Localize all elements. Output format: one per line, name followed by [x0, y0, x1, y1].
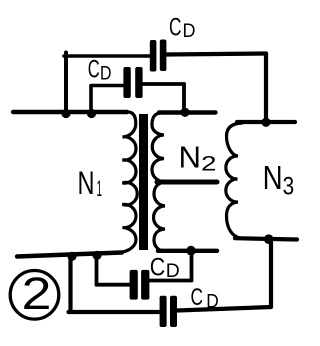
label CD inner top — [88, 55, 112, 84]
svg-text:3: 3 — [283, 173, 295, 201]
wire from outer top cap to right — [166, 54, 266, 55]
wire riser to outer top loop — [64, 53, 68, 113]
svg-text:D: D — [206, 292, 219, 313]
svg-text:C: C — [150, 254, 166, 282]
label N1 — [78, 165, 103, 201]
wire riser down to outer bottom loop — [68, 256, 72, 313]
wire from inner top cap to right — [143, 82, 184, 86]
svg-text:N: N — [179, 140, 202, 175]
core — [139, 114, 148, 250]
wire outer bottom rail left piece — [69, 310, 160, 314]
capacitor CD outer top — [150, 40, 167, 72]
winding N2 lower — [154, 183, 166, 251]
wire N2 bottom tap — [158, 249, 217, 253]
wire outer top loop horizontal — [64, 54, 150, 58]
wire outer bottom rail right piece — [177, 307, 271, 311]
svg-text:C: C — [169, 14, 182, 42]
wire vertical up to N3 bottom — [269, 239, 273, 307]
node bottom rail right — [92, 251, 101, 260]
wire vertical down to N2 top tap — [182, 84, 186, 112]
node on top rail left — [61, 109, 70, 118]
svg-text:2: 2 — [201, 152, 217, 176]
wire N3 top rail — [237, 120, 295, 124]
svg-text:C: C — [88, 55, 100, 83]
node N2 bottom tap — [186, 246, 196, 256]
capacitor CD outer bottom — [160, 296, 177, 327]
wire vertical up to N2 bottom tap — [190, 251, 194, 281]
wire from inner bottom cap to right — [149, 279, 191, 283]
capacitor CD inner top — [123, 67, 142, 98]
node bottom rail left — [67, 252, 76, 261]
svg-text:D: D — [183, 21, 196, 42]
svg-text:N: N — [263, 159, 283, 196]
capacitor CD inner bottom — [130, 270, 150, 300]
winding N1 — [121, 112, 137, 252]
wire right vertical down to N3 top — [264, 54, 268, 123]
node N2 top tap — [180, 108, 189, 117]
wire riser to inner top loop — [89, 86, 93, 112]
svg-text:1: 1 — [97, 176, 103, 201]
wire riser down to inner bottom loop — [95, 255, 99, 285]
node N3 bottom rail — [264, 234, 274, 244]
winding N3 — [226, 123, 242, 238]
wire N2 top tap — [159, 110, 216, 114]
figure number circle 2 — [10, 271, 59, 320]
label N3 — [263, 159, 295, 201]
junction node dots — [61, 108, 273, 261]
svg-text:D: D — [100, 64, 112, 85]
wire N2 center tap — [157, 180, 217, 185]
svg-text:C: C — [191, 284, 204, 311]
label CD inner bottom — [150, 254, 180, 283]
svg-text:D: D — [166, 261, 180, 282]
wire inner top loop horizontal — [91, 84, 123, 88]
wire top-left feed rail — [13, 110, 127, 114]
node on top rail right — [87, 109, 96, 118]
wire N3 bottom rail — [235, 238, 297, 239]
wire bottom-left rail — [17, 253, 122, 257]
node N3 top rail — [261, 118, 270, 127]
wire inner bottom loop left horizontal — [97, 283, 130, 287]
svg-text:N: N — [78, 165, 95, 201]
label CD outer bottom — [191, 284, 219, 313]
label N2 — [179, 140, 217, 176]
winding N2 upper — [152, 113, 164, 182]
label CD outer top — [169, 14, 196, 42]
svg-text:2: 2 — [22, 268, 52, 319]
